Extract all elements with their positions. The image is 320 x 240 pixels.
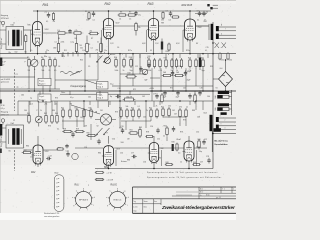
resistor R23 — [165, 58, 167, 60]
svg-text:R76: R76 — [48, 126, 51, 128]
pinout diagram E80CC — [109, 191, 125, 207]
svg-text:0,1: 0,1 — [138, 106, 140, 108]
svg-text:von unten gesehen: von unten gesehen — [44, 215, 59, 218]
wire bus y54 — [0, 53, 236, 55]
resistor R45 — [62, 108, 64, 110]
svg-text:C55: C55 — [120, 153, 123, 155]
svg-text:R29a: R29a — [186, 50, 190, 52]
svg-text:b: b — [221, 33, 222, 35]
svg-text:C57: C57 — [200, 162, 203, 164]
svg-text:0,1μ: 0,1μ — [110, 83, 113, 85]
left margin mark 4 — [0, 100, 2, 104]
svg-text:C49: C49 — [84, 126, 87, 128]
capacitor C14b — [148, 62, 150, 64]
svg-text:Eingang: Eingang — [1, 112, 8, 114]
svg-text:S1: S1 — [216, 88, 218, 90]
svg-text:R7: R7 — [91, 38, 93, 40]
svg-text:C2a: C2a — [46, 50, 49, 52]
svg-text:0,5: 0,5 — [30, 50, 32, 52]
svg-text:R72: R72 — [170, 88, 173, 90]
wire Ro1 anode — [37, 11, 39, 21]
wire segment left y58 — [0, 57, 28, 59]
switch S1 — [97, 56, 103, 62]
resistor R22 — [159, 58, 161, 60]
svg-text:R71: R71 — [133, 89, 136, 91]
svg-text:R74: R74 — [155, 117, 158, 119]
svg-text:Rö1: Rö1 — [75, 185, 80, 187]
svg-text:R47: R47 — [75, 107, 78, 109]
svg-text:Steckerleiste F 20: Steckerleiste F 20 — [44, 212, 59, 215]
svg-text:R79: R79 — [180, 132, 183, 134]
resistor R22a dark — [161, 42, 163, 50]
tube Ro2 — [103, 19, 113, 39]
transformer Ub2 secondary 1 — [216, 26, 219, 31]
capacitor C9 — [199, 11, 201, 13]
capacitor C77 — [132, 156, 134, 158]
connector Bu1 pin 1 — [218, 91, 229, 94]
wire bus y94 — [60, 93, 150, 95]
resistor Ra3 — [88, 33, 90, 35]
svg-text:R11: R11 — [64, 50, 67, 52]
resistor R47 — [76, 108, 78, 110]
resistor R56 — [179, 108, 181, 110]
svg-text:R4: R4 — [41, 57, 43, 59]
svg-text:R86: R86 — [52, 110, 55, 112]
svg-text:C32: C32 — [229, 59, 232, 61]
svg-text:50k: 50k — [138, 27, 141, 29]
svg-text:C77: C77 — [131, 152, 134, 154]
resistor R52 — [150, 108, 152, 110]
svg-text:R85: R85 — [28, 25, 31, 27]
svg-text:2k: 2k — [176, 70, 178, 72]
svg-text:R42: R42 — [44, 113, 47, 115]
transformer Ub4 secondary 1 — [216, 117, 219, 122]
svg-text:gez. 4.4: gez. 4.4 — [216, 197, 221, 199]
resistor R31 — [162, 75, 164, 77]
tube Ro3b — [149, 143, 158, 163]
wire vertical rail x213 — [212, 22, 214, 169]
potentiometer P1 — [31, 59, 38, 66]
left margin mark 3 — [0, 149, 2, 154]
wire crossover X1 — [215, 43, 220, 49]
wire bus stubs — [45, 51, 47, 54]
capacitor C35 under bus — [199, 90, 201, 92]
resistor R82b — [56, 148, 57, 150]
resistor R68 — [165, 164, 166, 166]
resistor Rb4 — [100, 42, 102, 44]
wire connector rail x231.5 — [231, 90, 233, 115]
svg-text:R49: R49 — [89, 107, 92, 109]
resistor R63 — [166, 126, 168, 128]
svg-text:Spannungswerte unter 20 Volt g: Spannungswerte unter 20 Volt gemessen mi… — [147, 176, 222, 179]
svg-text:C44: C44 — [207, 96, 210, 98]
resistor R42 — [45, 114, 47, 116]
svg-text:C45: C45 — [80, 117, 83, 119]
svg-text:C22: C22 — [204, 139, 207, 141]
svg-text:R75: R75 — [183, 120, 186, 122]
left margin mark 1 — [0, 58, 2, 67]
resistor R55 — [168, 107, 170, 109]
svg-text:R83: R83 — [127, 160, 130, 162]
svg-text:R73: R73 — [115, 112, 118, 114]
svg-text:C18: C18 — [118, 88, 121, 90]
wire Ub2 output lines — [219, 26, 236, 28]
resistor R12 — [162, 11, 164, 12]
resistor R67 left — [22, 152, 24, 154]
svg-text:R59: R59 — [76, 129, 79, 131]
svg-text:0,1μ: 0,1μ — [70, 97, 73, 99]
svg-text:2/250 mV: 2/250 mV — [1, 18, 10, 20]
svg-text:1kΩ 2W: 1kΩ 2W — [126, 97, 132, 99]
svg-text:J1: J1 — [13, 22, 15, 24]
svg-text:1k: 1k — [123, 70, 125, 72]
svg-text:1,2k: 1,2k — [57, 30, 60, 32]
svg-text:a: a — [117, 188, 118, 190]
resistor R64 dark — [172, 144, 174, 151]
svg-text:25k: 25k — [96, 49, 99, 51]
resistor R44 — [56, 114, 58, 116]
resistor R60 — [86, 135, 88, 137]
svg-text:R67: R67 — [24, 150, 27, 152]
svg-text:C51: C51 — [157, 139, 160, 141]
svg-text:50k: 50k — [126, 106, 129, 108]
transformer Ub4 primary — [210, 115, 213, 131]
wire Ro3 cathode — [153, 39, 155, 54]
resistor R27 — [181, 58, 183, 60]
svg-text:Name: Name — [144, 201, 148, 203]
connector Bu1 pin 2 — [218, 95, 230, 98]
svg-text:R6: R6 — [49, 57, 51, 59]
wire dashed vertical x14.5 top — [14, 69, 16, 111]
svg-text:Zweikanal-Wiedergabeverstärker: Zweikanal-Wiedergabeverstärker — [161, 205, 236, 211]
svg-text:g: g — [107, 205, 108, 207]
svg-text:Rö2: Rö2 — [105, 2, 111, 6]
resistor R3 — [53, 12, 55, 13]
resistor R28 — [189, 58, 191, 60]
wire bus y89 — [0, 88, 60, 90]
svg-text:R28: R28 — [188, 58, 191, 60]
svg-text:a: a — [97, 52, 98, 54]
svg-text:R15: R15 — [80, 59, 83, 61]
wire bus y86 — [112, 85, 213, 87]
resistor R16 — [115, 58, 117, 60]
resistor R18 — [130, 58, 132, 60]
svg-text:R44: R44 — [55, 113, 58, 115]
svg-text:C6: C6 — [117, 47, 119, 49]
annotation box Pegel-Regler I — [38, 78, 51, 86]
svg-text:R8: R8 — [120, 12, 122, 14]
svg-text:C79: C79 — [153, 94, 156, 96]
svg-text:E 80 CC: E 80 CC — [114, 199, 122, 201]
svg-text:1k: 1k — [186, 107, 188, 109]
wire rectifier connections — [213, 78, 219, 80]
resistor R21 — [154, 58, 156, 60]
svg-text:Üb: Üb — [9, 51, 11, 54]
svg-text:Entz.: Entz. — [62, 91, 66, 94]
svg-text:C42: C42 — [142, 96, 145, 98]
legend box Bu2 — [54, 175, 64, 212]
potentiometer P2 — [105, 58, 111, 64]
svg-text:T: T — [222, 189, 223, 191]
svg-text:C9: C9 — [88, 66, 90, 68]
svg-text:0,1μ: 0,1μ — [71, 42, 74, 44]
rectifier Gr1 — [219, 72, 233, 87]
svg-text:a: a — [72, 197, 73, 199]
svg-text:C52: C52 — [196, 132, 199, 134]
tube Ro1b — [33, 145, 43, 164]
resistor R4 — [42, 58, 44, 60]
svg-text:1,2k: 1,2k — [82, 50, 85, 52]
svg-text:50k: 50k — [80, 47, 83, 49]
svg-text:R88: R88 — [192, 110, 195, 112]
wire bottom signal path — [44, 149, 61, 151]
resistor R7 — [54, 58, 56, 60]
svg-text:C30: C30 — [200, 88, 203, 90]
svg-text:C31: C31 — [221, 59, 224, 61]
resistor R32 — [174, 75, 176, 77]
svg-text:2k: 2k — [146, 110, 148, 112]
capacitor C10 — [203, 11, 205, 13]
title block inner marks — [176, 191, 198, 193]
svg-text:J2: J2 — [13, 120, 15, 122]
svg-text:4,7k: 4,7k — [75, 30, 78, 32]
meter M1 — [100, 114, 111, 125]
svg-text:R 30: R 30 — [1, 105, 5, 107]
svg-text:R80: R80 — [26, 146, 29, 148]
tube Ro3 — [148, 19, 158, 40]
resistor R9 — [127, 14, 128, 16]
svg-text:C56: C56 — [143, 162, 146, 164]
resistor R24 — [171, 58, 173, 60]
wire Ub4 output lines — [219, 117, 236, 119]
resistor R33 — [123, 99, 125, 101]
resistor R22b — [168, 43, 170, 44]
leader arrow Frequenzgang — [70, 71, 82, 76]
capacitor C78 — [208, 158, 210, 160]
svg-text:4,7k: 4,7k — [159, 70, 162, 72]
capacitor C1 — [48, 12, 50, 14]
svg-text:0,5 μ: 0,5 μ — [1, 108, 5, 110]
svg-text:R30: R30 — [201, 58, 204, 60]
svg-text:50μ: 50μ — [202, 70, 205, 72]
svg-text:R5: R5 — [85, 11, 87, 13]
svg-text:Üb4: Üb4 — [204, 111, 207, 114]
svg-text:R18: R18 — [129, 57, 132, 59]
node circle — [72, 153, 78, 159]
annotation box Pegel-Regler IV — [97, 93, 109, 101]
svg-text:C7a: C7a — [138, 14, 141, 16]
svg-text:0,1: 0,1 — [46, 21, 48, 23]
svg-text:Pegel-: Pegel- — [39, 96, 45, 98]
svg-text:1M2: 1M2 — [53, 47, 56, 49]
pinout diagram EF804S — [76, 191, 92, 207]
resistor R1 — [25, 34, 27, 36]
svg-text:2k: 2k — [49, 70, 51, 72]
resistor R41 row bottom — [28, 114, 30, 116]
wire Ro2 anode — [108, 11, 110, 19]
svg-text:R45: R45 — [61, 107, 64, 109]
leader to meter — [71, 105, 100, 114]
wire Ro2 cathode — [108, 39, 110, 54]
wire segment left y115 — [0, 114, 30, 116]
resistor R34 — [161, 93, 163, 95]
transformer Ub2 secondary 2 — [216, 34, 219, 39]
svg-text:Rö5: Rö5 — [215, 107, 217, 110]
svg-text:25k: 25k — [189, 70, 192, 72]
tube Ro4 — [185, 19, 196, 40]
svg-text:R77: R77 — [105, 133, 108, 135]
svg-text:+350V: +350V — [149, 88, 155, 90]
svg-text:Eing. 1,55 mV: Eing. 1,55 mV — [1, 37, 3, 49]
capacitor C19 — [98, 139, 100, 141]
svg-text:C8: C8 — [58, 66, 60, 68]
legend resistor 1W — [95, 171, 96, 173]
svg-text:C43: C43 — [183, 88, 186, 90]
svg-text:Bl. 1: Bl. 1 — [200, 189, 203, 191]
svg-text:R17a: R17a — [128, 50, 132, 52]
svg-text:1k: 1k — [40, 110, 42, 112]
connector pins top right — [207, 4, 209, 6]
svg-text:0,1: 0,1 — [91, 47, 93, 49]
capacitor Ca1 — [69, 29, 71, 31]
svg-text:S2: S2 — [97, 126, 99, 128]
svg-text:50μ: 50μ — [130, 70, 133, 72]
svg-text:R66: R66 — [198, 139, 201, 141]
svg-text:C60: C60 — [24, 110, 27, 112]
resistor Rb2 — [76, 42, 78, 44]
wire channel divider bus y101 — [18, 100, 213, 102]
svg-text:2μ: 2μ — [30, 98, 32, 100]
resistor R69 — [192, 164, 193, 166]
capacitor C22 — [203, 139, 205, 141]
resistor R51 — [138, 108, 140, 110]
svg-text:1k: 1k — [180, 162, 182, 164]
svg-text:40μF: 40μF — [187, 79, 191, 81]
svg-text:C14: C14 — [178, 66, 181, 68]
svg-text:0,1: 0,1 — [57, 129, 59, 131]
svg-text:0,1: 0,1 — [93, 20, 95, 22]
svg-text:C16: C16 — [150, 126, 153, 128]
svg-text:R48: R48 — [119, 108, 122, 110]
svg-text:= 0,5 W: = 0,5 W — [107, 179, 114, 181]
svg-text:R20: R20 — [148, 56, 151, 58]
wire crossover X2 — [222, 43, 227, 49]
svg-text:25k: 25k — [90, 31, 93, 33]
wire signal path top — [43, 32, 56, 34]
svg-text:g: g — [90, 190, 91, 192]
svg-text:Pegel-: Pegel- — [97, 84, 103, 86]
svg-text:1k: 1k — [56, 104, 58, 106]
resistor R62 — [139, 128, 141, 130]
resistor R61b — [145, 136, 146, 138]
svg-text:C62: C62 — [172, 110, 175, 112]
svg-text:Beez: Beez — [144, 207, 148, 209]
svg-text:C23: C23 — [49, 155, 52, 157]
svg-text:0,5: 0,5 — [54, 70, 56, 72]
svg-text:Rö3 E: Rö3 E — [111, 185, 118, 187]
svg-text:1k: 1k — [171, 70, 173, 72]
annotation box Pegel-Regler III — [38, 94, 51, 102]
paper background — [0, 0, 236, 220]
svg-text:C41: C41 — [88, 97, 91, 99]
svg-text:R69: R69 — [193, 162, 196, 164]
svg-text:Bl. 2: Bl. 2 — [200, 192, 203, 194]
capacitor C12 — [172, 70, 174, 72]
legend resistor 0.5W — [95, 179, 96, 181]
svg-text:8μ: 8μ — [110, 96, 112, 98]
svg-text:Rö2: Rö2 — [31, 171, 36, 174]
svg-text:R10: R10 — [62, 56, 65, 58]
input jack J1 — [1, 21, 5, 25]
svg-text:R58: R58 — [63, 129, 66, 131]
resistor R8 — [118, 14, 119, 16]
svg-text:= 1 W: = 1 W — [107, 172, 112, 174]
wire misc segments — [195, 13, 207, 15]
wire drops component row — [28, 68, 30, 89]
resistor R29 — [195, 58, 197, 60]
svg-text:M 10: M 10 — [206, 195, 210, 197]
svg-text:Pegel-: Pegel- — [39, 80, 45, 82]
resistor R17 — [123, 58, 125, 60]
svg-text:100k: 100k — [115, 70, 119, 72]
resistor R50 — [132, 108, 134, 110]
svg-text:0,5: 0,5 — [178, 152, 180, 154]
svg-text:R87: R87 — [130, 110, 133, 112]
svg-text:Tag: Tag — [133, 201, 136, 203]
tube Ro4b — [184, 141, 194, 161]
capacitor C7 — [170, 11, 172, 13]
wire Ro1 cathode — [37, 45, 39, 54]
svg-text:0,5: 0,5 — [169, 19, 171, 21]
resistor R25 — [176, 58, 178, 60]
svg-text:25k: 25k — [161, 19, 164, 21]
paper texture speckles — [208, 117, 211, 120]
capacitor C24 — [67, 151, 69, 153]
wire Ro4 to Ub2 — [196, 25, 209, 27]
resistor R58 — [62, 131, 64, 133]
resistor R61 — [128, 132, 130, 134]
capacitor C11 — [140, 66, 142, 68]
svg-text:R1: R1 — [25, 52, 27, 54]
resistor Ra1 — [56, 32, 58, 34]
connector block bottom — [214, 128, 221, 132]
resistor R36 — [219, 52, 221, 53]
svg-text:Bü. Auf Verst.: Bü. Auf Verst. — [215, 139, 229, 142]
svg-text:mit 20 kΩ/V: mit 20 kΩ/V — [1, 78, 11, 81]
left margin mark 2 — [0, 124, 2, 136]
capacitor C21 — [173, 126, 175, 128]
svg-text:R60: R60 — [87, 132, 90, 134]
svg-text:C50: C50 — [112, 139, 115, 141]
svg-text:R63: R63 — [164, 126, 167, 128]
connector Bu1 pin 5 — [221, 112, 227, 115]
wire dashed vertical x14.5 bottom — [14, 150, 16, 171]
svg-text:Frequenzgang: Frequenzgang — [71, 85, 87, 88]
transformer Ub1 — [6, 27, 24, 50]
trimmer Frequenzgang wave — [60, 71, 80, 74]
capacitor C79 — [156, 93, 158, 95]
svg-text:Umschaltbox: Umschaltbox — [215, 143, 229, 146]
svg-text:4.4.55: 4.4.55 — [133, 207, 137, 209]
svg-text:C12: C12 — [135, 66, 138, 68]
resistor R13 — [171, 16, 172, 18]
svg-text:50k: 50k — [42, 70, 45, 72]
svg-text:Üb: Üb — [9, 150, 11, 153]
resistor R54 — [162, 107, 164, 109]
svg-text:R54: R54 — [161, 107, 164, 109]
svg-text:C40: C40 — [21, 95, 24, 97]
resistor R49 — [126, 108, 128, 110]
